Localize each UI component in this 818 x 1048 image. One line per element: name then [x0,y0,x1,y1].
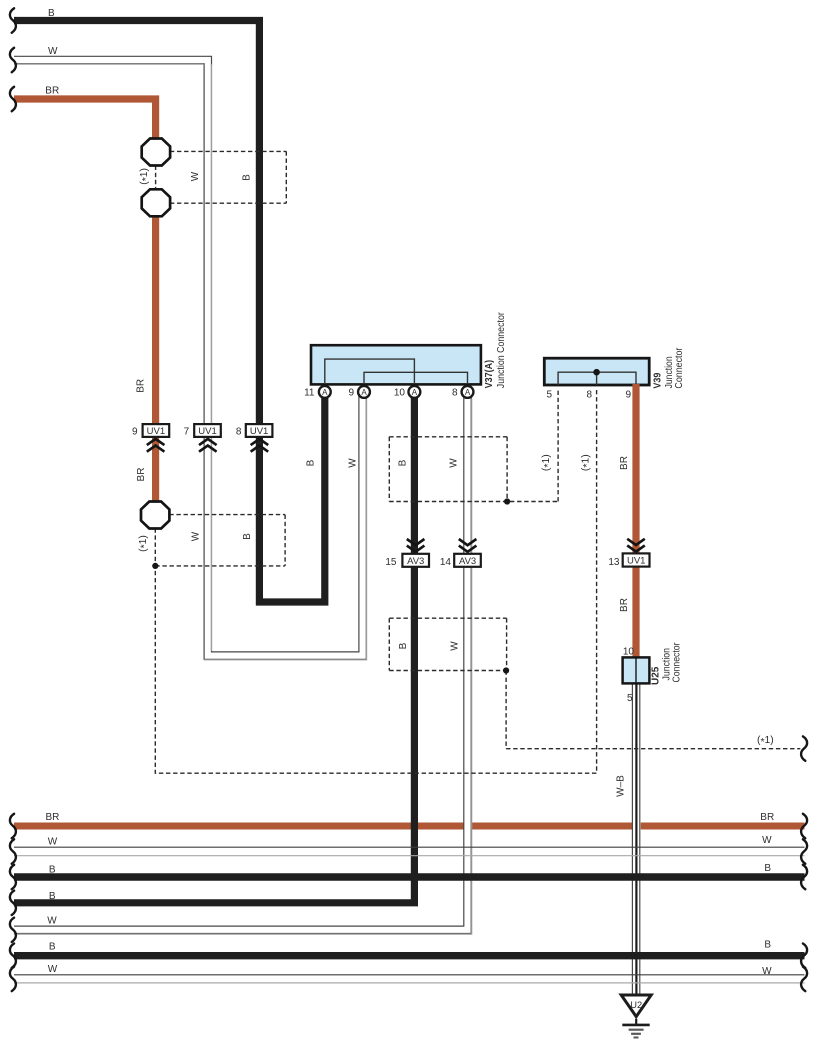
svg-text:B: B [49,891,56,902]
svg-text:W: W [190,531,201,541]
svg-text:A: A [412,388,418,397]
junction connector V37(A) body [311,345,481,384]
svg-text:Junction: Junction [664,356,675,388]
svg-text:B: B [764,939,771,950]
wire B top bus through UV1 8 to V37 pin 11 [14,21,325,603]
svg-text:W: W [450,641,461,651]
wire BR horizontal bus y=826 [14,823,805,830]
svg-text:BR: BR [135,379,146,393]
connector AV3 pin 14 [440,539,481,568]
svg-text:BR: BR [619,598,630,612]
svg-text:(*1): (*1) [139,168,152,185]
svg-text:B: B [48,8,55,19]
dashed box under AV3 and link to right edge (*1) [389,618,800,749]
svg-text:BR: BR [45,86,59,97]
svg-text:10: 10 [623,647,635,658]
svg-text:8: 8 [236,426,242,437]
svg-text:V37(A): V37(A) [484,360,495,389]
svg-text:BR: BR [46,812,60,823]
svg-text:A: A [361,388,367,397]
svg-text:U25: U25 [651,666,662,685]
V37(A) internal busbar pin9-pin8 [364,372,468,384]
svg-text:BR: BR [760,812,774,823]
svg-text:9: 9 [132,427,138,438]
wire B horizontal bus y=955.7 [14,952,805,959]
svg-text:A: A [465,388,471,397]
svg-text:B: B [49,864,56,875]
wire B horizontal bus y=877 [14,873,805,880]
svg-text:UV1: UV1 [250,426,268,437]
svg-text:8: 8 [586,390,592,401]
wire W from top bus to V37 pin 9 (U-turn) outline [14,60,363,656]
svg-text:B: B [242,533,253,540]
svg-text:7: 7 [184,426,190,437]
V39 internal junction dot [593,369,600,376]
dashed link between octagon splices (*1) [155,166,157,190]
wire W light edge lines [14,64,367,660]
wire BR top bus to octagon splice [14,99,156,152]
dashed box at lower octagon [155,515,285,566]
svg-text:Junction Connector: Junction Connector [496,312,507,389]
V37 pin 10 terminal A [394,386,420,399]
wire W core [14,392,468,930]
V37(A) internal busbar pin11-pin10 [325,359,415,384]
svg-text:(*1): (*1) [541,454,554,471]
svg-text:(*1): (*1) [138,535,151,552]
svg-text:UV1: UV1 [198,426,216,437]
V39 internal busbar pin8 stub [596,372,598,385]
svg-text:9: 9 [348,388,354,399]
dashed junction dot box D [504,498,510,504]
svg-text:B: B [398,642,409,649]
wire W horizontal bus y=851.5 [14,847,805,856]
V37 pin 8 terminal A [452,386,474,399]
svg-text:UV1: UV1 [627,556,645,567]
svg-text:11: 11 [304,388,315,399]
svg-text:BR: BR [619,456,630,470]
svg-text:B: B [764,863,771,874]
wire W light edge lines [14,399,472,934]
svg-text:8: 8 [452,388,458,399]
wire W horizontal bus y=978.9 [14,975,805,983]
svg-text:AV3: AV3 [459,556,476,567]
wire BR octagon to octagon splice below [152,203,159,515]
svg-text:W: W [48,46,58,57]
svg-text:U2: U2 [630,1000,642,1010]
svg-text:B: B [49,941,56,952]
svg-text:9: 9 [625,390,631,401]
dashed box at top octagons [170,151,286,203]
svg-text:V39: V39 [652,372,663,388]
svg-text:W: W [762,835,772,846]
wire W-B light edge line [639,683,641,995]
octagon splice 2 [142,189,170,216]
svg-text:W: W [449,458,460,468]
connector UV1 pin 9 [132,424,169,452]
wire W-B core [633,683,639,995]
svg-text:W: W [47,915,57,926]
svg-text:UV1: UV1 [147,426,165,437]
junction connector V39 body [544,358,649,385]
octagon splice 1 [142,139,170,166]
junction connector U25 body [623,657,650,683]
svg-text:W: W [48,964,58,975]
svg-text:W: W [190,171,201,181]
svg-text:5: 5 [627,693,633,704]
svg-text:15: 15 [385,557,397,568]
svg-text:Connector: Connector [672,642,683,683]
wire W core [14,60,363,656]
wire W-B center stripe [635,684,637,994]
connector AV3 pin 15 [385,539,429,568]
svg-text:B: B [242,174,253,181]
svg-text:W–B: W–B [616,775,627,797]
wire break squiggles left [10,8,16,991]
connector UV1 pin 13 [608,539,649,568]
svg-text:(*1): (*1) [757,735,774,748]
svg-text:Connector: Connector [674,347,685,389]
wire W-B from U25 to ground U2 outline [632,683,640,995]
svg-text:BR: BR [136,468,147,482]
svg-text:5: 5 [546,390,552,401]
ground U2 [621,995,651,1038]
connector UV1 pin 7 [184,424,221,452]
svg-text:A: A [322,388,328,397]
octagon splice 3 [141,502,169,529]
svg-text:B: B [306,459,317,466]
wire break squiggles right [801,736,807,991]
svg-text:B: B [398,459,409,466]
wire B from V37 pin 10 down to left bus [14,392,414,903]
svg-text:W: W [762,966,772,977]
wire W from V37 pin 8 down to left bus outline [14,392,468,930]
svg-text:10: 10 [394,388,406,399]
dashed junction dot left [152,563,158,569]
dashed junction dot box C [503,667,509,673]
wire BR V39 pin 9 down to U25 [632,384,639,661]
V37 pin 9 terminal A [348,386,370,399]
svg-text:W: W [48,836,58,847]
dashed wire octagon to V39 pin 8 (*1) [155,389,596,773]
V37 pin 11 terminal A [304,386,331,399]
svg-text:13: 13 [608,557,620,568]
svg-text:AV3: AV3 [407,556,424,567]
svg-text:14: 14 [440,557,452,568]
svg-text:W: W [347,458,358,468]
connector UV1 pin 8 [236,424,273,452]
dashed box under V37 pins and link to V39 pin 5 (*1) [389,389,558,502]
V39 internal busbar [558,372,636,385]
svg-text:(*1): (*1) [580,454,593,471]
